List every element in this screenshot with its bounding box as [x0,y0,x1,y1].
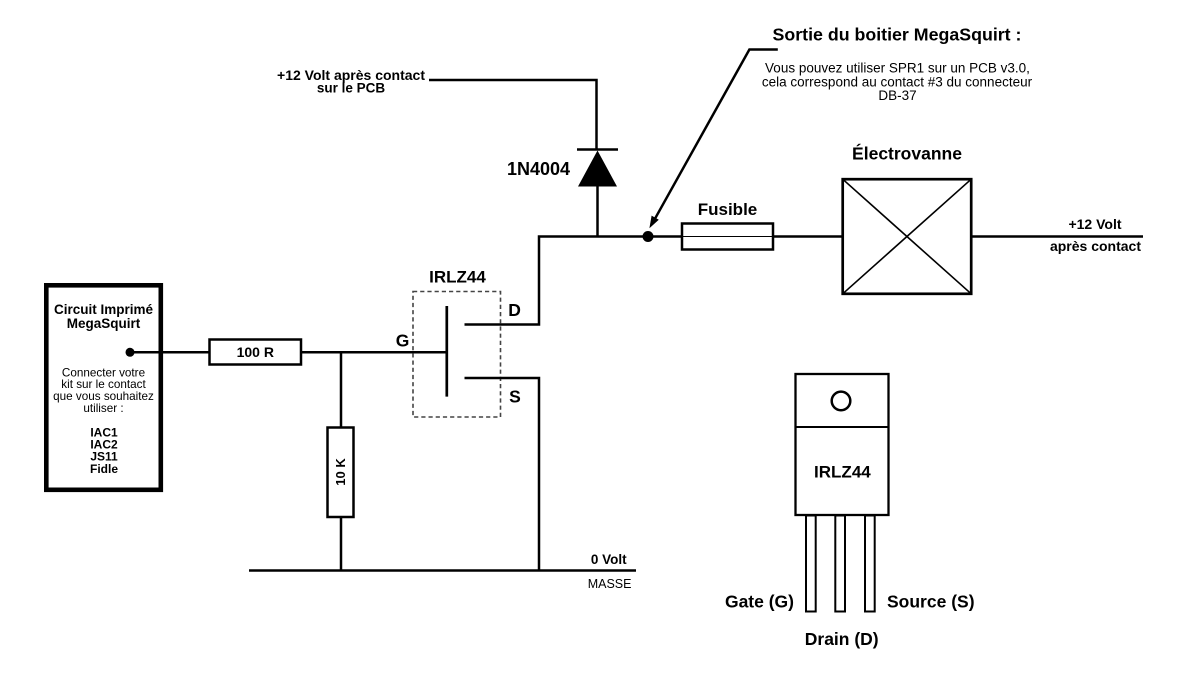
wire electrovanne to +12V after contact [971,235,1143,238]
wire fuse to electrovanne [773,235,843,238]
svg-text:Vous pouvez utiliser SPR1 sur: Vous pouvez utiliser SPR1 sur un PCB v3.… [765,60,1030,75]
svg-text:Fidle: Fidle [90,462,118,476]
svg-text:Source (S): Source (S) [887,592,975,612]
note Connecter votre kit [53,366,154,415]
list IAC1 IAC2 JS11 Fidle [90,426,118,476]
MegaSquirt PCB box [46,285,161,490]
svg-text:100 R: 100 R [237,344,274,360]
wire branch junction to resistor R2 [340,352,343,428]
MOSFET Q1 gate bar [445,306,448,397]
svg-text:Fusible: Fusible [698,200,758,219]
solenoid valve Electrovanne box [843,179,972,294]
svg-text:Circuit Imprimé: Circuit Imprimé [54,302,154,317]
svg-text:D: D [508,300,521,320]
package leg source [865,516,875,612]
wire PCB pin to resistor R1 [130,351,210,354]
wire diode anode to +12V rail [596,185,599,238]
svg-text:MASSE: MASSE [588,577,632,591]
diode D1 1N4004 [577,150,618,187]
ground rail 0V MASSE [249,569,636,572]
svg-text:S: S [509,387,521,407]
label +12 Volt apres contact sur le PCB (top feed) [277,67,425,96]
svg-text:Électrovanne: Électrovanne [852,143,962,164]
svg-text:utiliser :: utiliser : [83,402,123,415]
MOSFET Q1 dashed outline [413,292,501,418]
svg-text:+12 Volt: +12 Volt [1068,216,1121,232]
resistor R2 10K [328,428,354,518]
wire source lead to ground rail [465,378,540,570]
svg-text:G: G [396,330,410,350]
package leg gate [806,516,816,612]
node pin dot on PCB [126,348,135,357]
node junction dot on +12V rail [643,231,654,242]
svg-text:Drain (D): Drain (D) [805,629,879,649]
package leg drain [835,516,845,612]
leader arrow from note to node [649,50,777,229]
svg-text:sur le PCB: sur le PCB [317,81,386,96]
svg-text:MegaSquirt: MegaSquirt [67,316,141,331]
fuse F1 body [682,224,773,250]
resistor R1 100R [210,340,302,365]
svg-text:Sortie du boitier MegaSquirt :: Sortie du boitier MegaSquirt : [773,25,1022,45]
TO-220 package outline [796,374,889,515]
svg-text:10 K: 10 K [333,458,348,486]
wire drain lead and +12V rail to fuse [465,237,684,325]
svg-text:DB-37: DB-37 [878,88,916,103]
note SPR1 / PCB v3.0 / DB-37 [762,60,1033,103]
svg-text:après contact: après contact [1050,238,1141,254]
wire resistor R2 to ground rail [340,517,343,572]
svg-text:IRLZ44: IRLZ44 [429,268,486,287]
svg-text:0 Volt: 0 Volt [591,552,627,567]
label +12 Volt apres contact (right) [1050,216,1141,254]
svg-text:Gate (G): Gate (G) [725,592,794,612]
wire from +12V label to diode cathode [429,80,597,149]
svg-text:IRLZ44: IRLZ44 [814,462,871,481]
wire resistor R1 to gate [301,351,447,354]
label Circuit Imprime MegaSquirt [54,302,154,331]
svg-text:1N4004: 1N4004 [507,159,570,179]
